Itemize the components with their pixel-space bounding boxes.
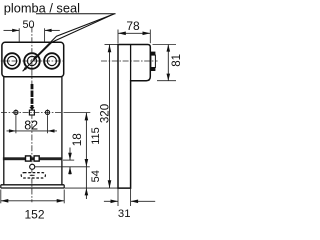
seal wire leader to seal eyelet bbox=[23, 14, 115, 72]
dim 78 line with inside arrows bbox=[118, 32, 150, 34]
side top extension line bbox=[105, 44, 119, 46]
side view outline bbox=[118, 45, 150, 189]
dim 50 line with outside arrows bbox=[4, 29, 20, 31]
dim 31 extension lines bbox=[117, 188, 119, 206]
svg-text:81: 81 bbox=[171, 54, 181, 67]
sealing screw C1 bbox=[4, 53, 20, 69]
svg-text:54: 54 bbox=[90, 170, 102, 182]
slider bar bbox=[31, 84, 34, 107]
front view body right edge bbox=[61, 77, 63, 185]
dim 82 line with outside arrows bbox=[7, 130, 58, 132]
svg-text:plomba / seal: plomba / seal bbox=[4, 0, 80, 15]
terminal row extension for dim 18 bbox=[63, 159, 74, 161]
leader baseline under label bbox=[36, 13, 116, 15]
dashed obround (seal window) bbox=[21, 173, 45, 178]
dim 78 extension lines bbox=[117, 30, 119, 44]
svg-text:115: 115 bbox=[90, 127, 102, 145]
svg-text:320: 320 bbox=[99, 104, 111, 123]
dim 50 extension lines bbox=[18, 28, 20, 42]
svg-text:78: 78 bbox=[126, 19, 140, 33]
side clip body bbox=[151, 55, 156, 67]
vertical centerline of front view bbox=[31, 27, 33, 203]
slider square bbox=[29, 110, 34, 115]
seal wire leader to screw C2 bbox=[33, 14, 114, 60]
slider foot arrow bbox=[29, 107, 34, 110]
side body inner edge bbox=[130, 45, 132, 81]
leader arrowhead bbox=[23, 67, 28, 72]
sealing screw C3 bbox=[44, 53, 60, 69]
front flange left edge bbox=[0, 185, 2, 188]
bottom extension line bbox=[65, 187, 119, 189]
hole row centerline bbox=[1, 111, 63, 113]
dim 320 line bbox=[109, 45, 111, 189]
dim 54 bottom arrow bbox=[85, 188, 89, 195]
dim 31 line with outside arrows bbox=[104, 200, 118, 202]
svg-text:50: 50 bbox=[22, 19, 34, 31]
terminal square left bbox=[26, 156, 31, 161]
svg-text:31: 31 bbox=[118, 208, 131, 220]
front flange step line bbox=[1, 184, 64, 186]
svg-text:18: 18 bbox=[70, 133, 84, 147]
side clip top cap bbox=[151, 52, 156, 56]
sealing screw C2 bbox=[24, 53, 40, 69]
front flange right edge bbox=[63, 185, 65, 188]
terminal square right bbox=[34, 156, 39, 161]
dim 18 line bbox=[69, 148, 71, 161]
dim 115 line bbox=[85, 113, 87, 199]
side view centerline bbox=[101, 60, 158, 62]
mounting hole right bbox=[45, 110, 49, 114]
dim 81 line with inside arrows bbox=[167, 45, 169, 81]
dim 152 line bbox=[1, 200, 64, 202]
obround center tick bbox=[30, 174, 35, 176]
eyelet row extension line bbox=[35, 166, 90, 168]
horizontal centerline through screws bbox=[1, 60, 64, 62]
dim 82 extension lines bbox=[15, 115, 17, 133]
side clip bottom cap bbox=[151, 68, 156, 72]
mounting hole left bbox=[14, 110, 18, 114]
front flange bottom edge bbox=[1, 187, 64, 189]
seal eyelet bbox=[30, 164, 35, 169]
hole row extension to dims bbox=[64, 112, 91, 114]
leader arrowhead at screw C2 bbox=[33, 55, 37, 59]
svg-text:152: 152 bbox=[24, 207, 44, 220]
svg-text:82: 82 bbox=[24, 119, 38, 133]
front view top section outline bbox=[2, 42, 64, 77]
dim 152 extension lines bbox=[0, 190, 2, 204]
terminal bar row bbox=[3, 157, 62, 160]
dim 81 extension lines bbox=[153, 44, 177, 46]
front view body left edge bbox=[3, 77, 5, 185]
